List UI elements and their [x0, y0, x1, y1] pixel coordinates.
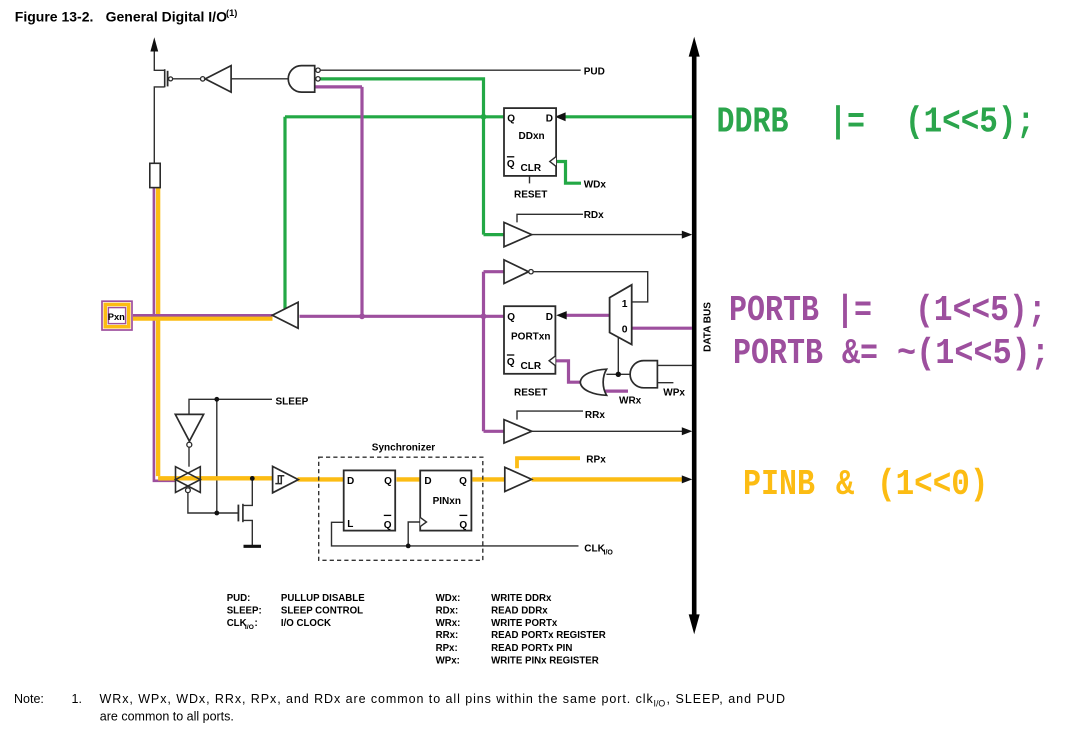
- svg-text:Q: Q: [459, 476, 467, 487]
- svg-text:READ PORTx PIN: READ PORTx PIN: [491, 643, 572, 654]
- svg-text:RESET: RESET: [514, 388, 547, 399]
- wire data bus to DDxn D input: [563, 115, 692, 118]
- svg-text:Q: Q: [459, 520, 467, 531]
- svg-text:D: D: [347, 476, 354, 487]
- junction PORTxn Q at down-leg: [481, 313, 487, 319]
- node Pxn pad box: [102, 301, 132, 330]
- svg-text:(1<<5);: (1<<5);: [905, 103, 1035, 144]
- wire SLEEP inverter output to transmission gate: [188, 448, 190, 467]
- schmitt trigger input buffer: [273, 466, 299, 492]
- wire PMOS drain to resistor: [154, 87, 164, 163]
- svg-text:I/O: I/O: [654, 699, 666, 709]
- OR gate PORTxn clock: [580, 369, 606, 395]
- wire PUD net: [320, 69, 581, 71]
- wire WDx to DDxn clock: [556, 162, 582, 184]
- svg-text:SLEEP:: SLEEP:: [227, 605, 262, 616]
- wire latch2 clock to CLKio: [408, 522, 420, 546]
- svg-text:Q: Q: [384, 520, 392, 531]
- svg-text:Note:: Note:: [14, 692, 44, 706]
- wire mux output to PORTxn D: [565, 314, 611, 317]
- wire RESET stub DDxn: [529, 176, 531, 184]
- arrowhead RRx output at bus: [682, 427, 693, 435]
- svg-text:PORTB: PORTB: [733, 333, 823, 374]
- junction DDxn Q node: [481, 114, 487, 120]
- svg-text:PUD: PUD: [584, 67, 605, 78]
- wire CLKio net: [332, 522, 579, 546]
- svg-text:Q: Q: [384, 476, 392, 487]
- junction CLKio: [406, 544, 411, 549]
- wire latch2 Q to output buffer: [472, 477, 504, 481]
- flip-flop PORTxn: [504, 306, 555, 374]
- wire PORTxn Q vertical to pull-up AND: [360, 87, 363, 316]
- svg-text:PINxn: PINxn: [433, 496, 461, 507]
- svg-text:CLK: CLK: [584, 543, 605, 554]
- svg-text:DDRB: DDRB: [717, 101, 789, 142]
- svg-text:(1<<0): (1<<0): [877, 465, 988, 506]
- svg-text:PORTxn: PORTxn: [511, 332, 550, 343]
- junction NMOS drain on input line: [250, 476, 255, 481]
- svg-text:&=: &=: [842, 333, 878, 374]
- svg-text:~(1<<5);: ~(1<<5);: [897, 334, 1050, 374]
- svg-text:0: 0: [622, 324, 628, 335]
- wire RDx enable: [517, 214, 583, 222]
- wire data bus to mux input 0: [632, 327, 692, 330]
- inverter SLEEP: [175, 414, 203, 447]
- inverter PORTxn toggle feedback: [504, 260, 533, 284]
- svg-text:RDx:: RDx:: [436, 605, 459, 616]
- code line PORTB clear: [733, 333, 1050, 375]
- buffer output driver (tri-state): [272, 302, 298, 328]
- svg-text:WDx:: WDx:: [436, 593, 461, 604]
- svg-text:CLK: CLK: [227, 618, 247, 629]
- wire toggle inverter output to mux input 1: [534, 272, 648, 302]
- svg-text:SLEEP: SLEEP: [276, 397, 309, 408]
- wire toggle inverter input: [484, 270, 505, 273]
- wire WPx stub: [657, 382, 673, 384]
- arrowhead RDx output at bus: [682, 231, 693, 239]
- svg-text:D: D: [424, 476, 431, 487]
- data bus bottom arrowhead: [689, 614, 700, 634]
- svg-text:RRx:: RRx:: [436, 630, 459, 641]
- svg-text:WRx:: WRx:: [436, 618, 461, 629]
- svg-text:L: L: [347, 519, 353, 530]
- wire SLEEP net horizontal: [189, 399, 272, 414]
- svg-text:WPx:: WPx:: [436, 655, 460, 666]
- svg-text:RESET: RESET: [514, 189, 547, 200]
- wire OR output node to AND gate WPx: [606, 373, 630, 375]
- wire RDx buffer output to data bus: [532, 234, 684, 236]
- wire schmitt output to latch1 D: [298, 477, 344, 481]
- flip-flop DDxn: [504, 108, 556, 176]
- wire inverter input from AND gate output: [231, 78, 289, 80]
- wire DDxn Q to output driver enable: [283, 117, 286, 309]
- junction PORTxn Q at driver line: [359, 313, 365, 319]
- wire RRx buffer input: [484, 430, 505, 433]
- arrowhead PORTxn D input: [556, 311, 567, 319]
- latch PINxn: [420, 471, 471, 531]
- transistor NMOS sleep clamp: [238, 504, 243, 522]
- synchronizer dashed box: [319, 457, 483, 560]
- svg-text:Synchronizer: Synchronizer: [372, 443, 435, 454]
- wire pin horizontal purple: [133, 314, 273, 317]
- wire NMOS source to ground: [243, 520, 252, 545]
- svg-text:RPx:: RPx:: [436, 643, 458, 654]
- svg-text:WRx: WRx: [619, 396, 642, 407]
- svg-text:I/O: I/O: [604, 550, 614, 557]
- svg-text:RPx: RPx: [586, 454, 606, 465]
- svg-text:WRx, WPx, WDx, RRx, RPx, and R: WRx, WPx, WDx, RRx, RPx, and RDx are com…: [100, 692, 654, 706]
- buffer RDx: [504, 222, 532, 246]
- buffer RRx: [504, 420, 532, 444]
- AND gate WPx: [630, 361, 657, 388]
- svg-text:READ PORTx REGISTER: READ PORTx REGISTER: [491, 630, 606, 641]
- wire AND gate input from PORTxn Q: [315, 85, 362, 88]
- wire WRx stub: [605, 390, 628, 393]
- svg-text:READ DDRx: READ DDRx: [491, 605, 548, 616]
- wire pin horizontal yellow: [133, 316, 273, 320]
- ground: [244, 545, 262, 548]
- arrowhead PINxn output at bus: [682, 475, 693, 483]
- svg-text:DATA BUS: DATA BUS: [703, 302, 714, 352]
- wire OR gate output to PORTxn clock: [555, 361, 581, 382]
- svg-text:PULLUP DISABLE: PULLUP DISABLE: [281, 593, 365, 604]
- svg-text:RRx: RRx: [585, 410, 605, 421]
- wire VCC to PMOS source: [154, 48, 164, 70]
- svg-text:Q: Q: [507, 159, 515, 170]
- svg-text:Figure 13-2.: Figure 13-2.: [15, 9, 94, 25]
- wire DDxn Q output horizontal: [285, 115, 505, 118]
- svg-text:Pxn: Pxn: [108, 311, 125, 322]
- code line PORTB set: [729, 290, 1047, 332]
- transmission gate sleep clamp: [176, 467, 201, 493]
- wire pin net purple vertical (resistor to input gate): [154, 188, 176, 481]
- svg-text:RDx: RDx: [584, 210, 604, 221]
- svg-text:Q: Q: [507, 312, 515, 323]
- wire PMOS gate to inverter bubble: [173, 78, 201, 80]
- inverter pull-up driver: [201, 66, 232, 93]
- wire AND gate input to DDxn Q vertical: [320, 79, 483, 235]
- latch L1: [344, 470, 396, 530]
- svg-text:I/O: I/O: [245, 624, 254, 631]
- svg-text:&: &: [836, 464, 854, 505]
- mux PORTxn input select: [610, 285, 632, 345]
- svg-text:I/O CLOCK: I/O CLOCK: [281, 618, 331, 629]
- svg-text:WRITE PORTx: WRITE PORTx: [491, 618, 558, 629]
- wire RPx enable yellow: [517, 458, 580, 468]
- svg-text:PORTB: PORTB: [729, 290, 819, 331]
- svg-text:PUD:: PUD:: [227, 593, 251, 604]
- svg-text:WDx: WDx: [584, 180, 607, 191]
- data bus vertical line: [692, 54, 697, 617]
- svg-text:PINB: PINB: [743, 464, 815, 505]
- wire latch1 Q to latch2 D: [397, 477, 421, 481]
- svg-text::: :: [255, 618, 258, 629]
- svg-text:Q: Q: [507, 114, 515, 125]
- wire transmission gate control bubble to SLEEP node: [188, 493, 217, 513]
- svg-text:D: D: [546, 114, 553, 125]
- svg-text:are common to all ports.: are common to all ports.: [100, 710, 234, 724]
- wire pin input to schmitt trigger yellow: [158, 476, 273, 480]
- junction mux select node: [616, 372, 621, 377]
- AND gate pull-up enable: [288, 66, 320, 93]
- svg-text:SLEEP CONTROL: SLEEP CONTROL: [281, 605, 363, 616]
- buffer PINxn output: [505, 467, 532, 491]
- junction SLEEP upper: [214, 397, 219, 402]
- wire PORTxn Q down-leg (toggle inverter to RRx buffer): [482, 272, 485, 432]
- data bus top arrowhead: [689, 37, 700, 57]
- code line DDRB: [717, 101, 1036, 143]
- wire SLEEP vertical to NMOS gate: [217, 399, 238, 513]
- wire RRx enable: [517, 411, 583, 420]
- svg-text:(1): (1): [226, 8, 237, 18]
- wire NMOS drain tap to input line: [243, 480, 252, 505]
- svg-text:WPx: WPx: [663, 388, 685, 399]
- svg-text:CLR: CLR: [521, 361, 542, 372]
- svg-text:|=: |=: [836, 290, 872, 331]
- code line PINB read: [743, 464, 988, 506]
- svg-text:D: D: [546, 312, 553, 323]
- svg-text:, SLEEP, and PUD: , SLEEP, and PUD: [667, 692, 786, 706]
- svg-text:DDxn: DDxn: [519, 131, 545, 142]
- resistor pull-up: [150, 163, 160, 187]
- svg-text:WRITE PINx REGISTER: WRITE PINx REGISTER: [491, 655, 599, 666]
- wire pin net yellow vertical: [156, 188, 160, 476]
- wire RDx buffer input: [484, 233, 505, 236]
- transistor PMOS pull-up: [165, 69, 173, 87]
- wire PINxn buffer output to data bus: [532, 477, 685, 481]
- wire mux select to junction: [617, 337, 619, 374]
- svg-text:1: 1: [622, 299, 628, 310]
- wire RRx buffer output to data bus: [532, 430, 684, 432]
- wire PORTxn Q output horizontal: [300, 315, 505, 318]
- arrowhead DDxn D input: [555, 112, 566, 121]
- svg-text:Q: Q: [507, 357, 515, 368]
- svg-text:(1<<5);: (1<<5);: [915, 291, 1047, 332]
- wire AND WPx input from data bus: [657, 364, 692, 366]
- svg-text:CLR: CLR: [521, 163, 542, 174]
- svg-text:WRITE DDRx: WRITE DDRx: [491, 593, 552, 604]
- VCC arrow: [150, 37, 158, 51]
- svg-text:General Digital I/O: General Digital I/O: [106, 9, 227, 25]
- junction SLEEP lower: [214, 511, 219, 516]
- svg-text:|=: |=: [829, 101, 865, 142]
- svg-text:1.: 1.: [72, 692, 82, 706]
